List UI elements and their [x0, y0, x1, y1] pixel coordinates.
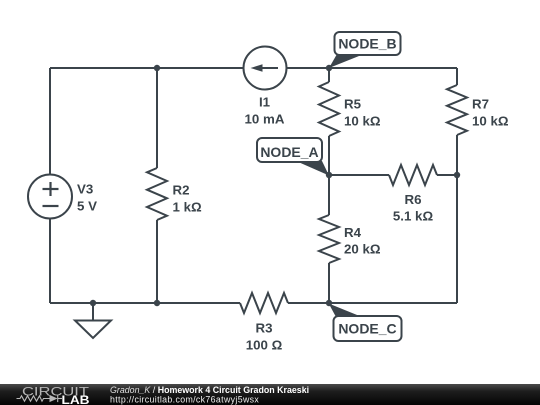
CircuitLab logo resistor-diode glyph — [17, 395, 63, 402]
svg-text:20 kΩ: 20 kΩ — [344, 242, 381, 257]
resistor R3 zigzag — [240, 293, 288, 353]
junction dot R6 right — [454, 172, 460, 178]
resistor R5 zigzag — [319, 82, 381, 136]
wire top rail right segment — [287, 67, 458, 69]
svg-text:I1: I1 — [259, 95, 271, 110]
svg-text:R7: R7 — [472, 97, 489, 112]
node NODE_A callout — [257, 138, 329, 176]
svg-text:V3: V3 — [77, 182, 93, 197]
wire right vertical lower — [456, 135, 458, 303]
junction dot top R2 — [154, 65, 160, 71]
voltage source V3 — [28, 175, 97, 219]
svg-text:10 mA: 10 mA — [245, 112, 285, 127]
wire middle branch NODE_B to R5 — [328, 68, 330, 82]
junction dot NODE_A — [326, 172, 332, 178]
wire NODE_A to R6 — [329, 174, 389, 176]
wire R2 branch upper — [156, 68, 158, 168]
wire R5 to NODE_A — [328, 136, 330, 175]
svg-text:NODE_C: NODE_C — [338, 320, 396, 336]
svg-text:5 V: 5 V — [77, 199, 97, 214]
svg-text:R6: R6 — [405, 192, 422, 207]
svg-text:http://circuitlab.com/ck76atwy: http://circuitlab.com/ck76atwyj5wsx — [110, 395, 259, 405]
resistor R6 zigzag — [389, 165, 437, 224]
svg-text:10 kΩ: 10 kΩ — [472, 114, 509, 129]
svg-text:10 kΩ: 10 kΩ — [344, 114, 381, 129]
wire bottom rail right segment — [288, 302, 457, 304]
node NODE_B callout — [329, 32, 401, 68]
junction dot ground — [90, 300, 96, 306]
current source I1 — [244, 47, 287, 127]
wire right vertical upper — [456, 68, 458, 85]
wire left vertical lower — [49, 219, 51, 304]
wire R2 branch lower — [156, 220, 158, 303]
svg-text:NODE_B: NODE_B — [338, 36, 396, 52]
wire R6 to right rail — [437, 174, 457, 176]
wire R4 to NODE_C — [328, 263, 330, 303]
svg-text:Gradon_K / Homework 4 Circuit: Gradon_K / Homework 4 Circuit Gradon Kra… — [110, 385, 309, 395]
resistor R7 zigzag — [447, 85, 509, 135]
junction dot bottom R2 — [154, 300, 160, 306]
svg-text:NODE_A: NODE_A — [260, 144, 318, 160]
resistor R2 zigzag — [147, 168, 202, 220]
svg-text:R3: R3 — [256, 321, 273, 336]
node NODE_C callout — [329, 304, 402, 342]
svg-text:R4: R4 — [344, 225, 362, 240]
wire left vertical upper — [49, 68, 51, 175]
svg-text:100 Ω: 100 Ω — [246, 338, 283, 353]
svg-text:LAB: LAB — [62, 395, 90, 405]
svg-text:R5: R5 — [344, 97, 362, 112]
junction dot NODE_C — [326, 300, 332, 306]
svg-text:R2: R2 — [173, 183, 190, 198]
svg-text:1 kΩ: 1 kΩ — [173, 200, 202, 215]
resistor R4 zigzag — [319, 215, 381, 263]
wire bottom rail left segment — [50, 302, 240, 304]
wire NODE_A to R4 — [328, 175, 330, 215]
junction dot NODE_B — [326, 65, 332, 71]
ground — [75, 303, 111, 338]
svg-text:5.1 kΩ: 5.1 kΩ — [393, 209, 434, 224]
wire top rail left segment — [50, 67, 244, 69]
footer bar — [0, 384, 540, 405]
